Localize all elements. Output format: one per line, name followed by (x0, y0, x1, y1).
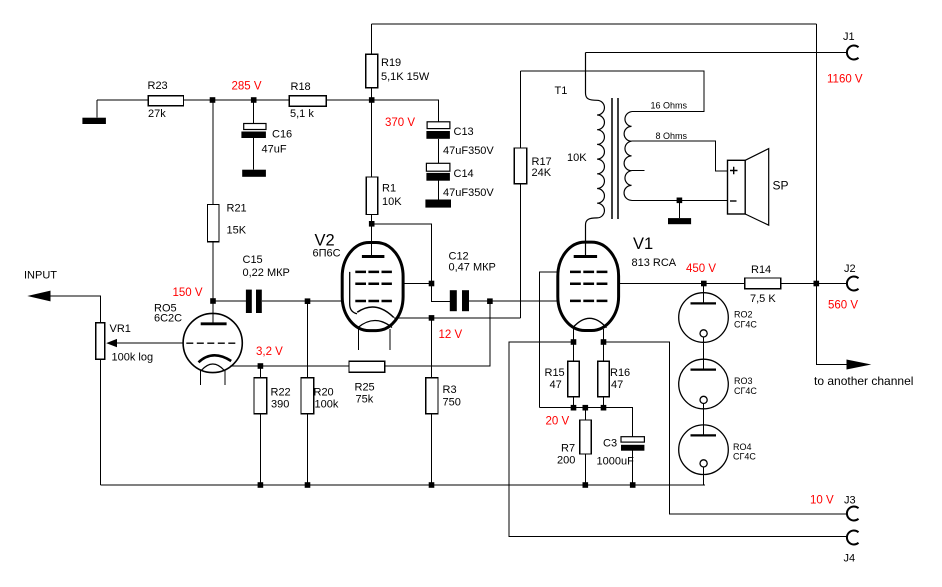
wire cathode node to J4 (509, 342, 847, 537)
svg-text:СГ4С: СГ4С (734, 319, 757, 329)
connector J1 (847, 46, 859, 60)
svg-text:370 V: 370 V (385, 117, 415, 129)
transformer T1 core (612, 98, 618, 219)
svg-text:1160 V: 1160 V (827, 74, 863, 86)
resistor R18 (289, 96, 326, 107)
svg-text:R18: R18 (291, 81, 311, 93)
potentiometer VR1 wiper arrow (106, 339, 117, 347)
wire J1 feed (586, 52, 848, 54)
tube V1 envelope (558, 242, 619, 330)
wire R19 branch (371, 24, 373, 100)
svg-text:C15: C15 (243, 254, 263, 266)
tube RO5 plate bar (201, 322, 227, 325)
node V1 cathode left (571, 339, 577, 345)
node 150V (210, 298, 216, 304)
resistor R16 (598, 361, 610, 397)
wire V2 cathode to 12V node (394, 317, 432, 319)
svg-text:27k: 27k (148, 108, 166, 120)
wire V2 heater stubs (359, 329, 391, 350)
svg-text:J3: J3 (844, 495, 856, 507)
wire 8ohm tap to speaker plus (632, 141, 728, 171)
wire top rail (372, 23, 817, 25)
tube RO3 plate bar (691, 369, 717, 371)
tube RO5 bottom dome (201, 364, 224, 371)
svg-text:6C2C: 6C2C (154, 313, 182, 325)
wire C3 to rail (632, 451, 634, 485)
node rail R20 (305, 482, 311, 488)
wire R15 branch (573, 342, 575, 408)
svg-text:5,1K 15W: 5,1K 15W (381, 71, 430, 83)
svg-text:10 V: 10 V (810, 495, 834, 507)
svg-text:24K: 24K (532, 167, 552, 179)
wire V1 grid1 left drop (539, 272, 557, 408)
svg-text:3,2 V: 3,2 V (256, 346, 283, 358)
wire 12V node to R17 bottom (432, 317, 521, 319)
svg-text:47uF: 47uF (262, 144, 287, 156)
wire C12 to V1 grid (469, 300, 558, 302)
svg-text:RO2: RO2 (734, 310, 753, 320)
tube V1 grid dashes (570, 272, 607, 301)
node R7 top 20V (583, 405, 589, 411)
svg-text:J1: J1 (843, 31, 855, 43)
capacitor C14 (426, 163, 450, 180)
svg-text:RO4: RO4 (733, 442, 752, 452)
node V2 plate (369, 221, 375, 227)
svg-text:C13: C13 (454, 126, 474, 138)
svg-text:47: 47 (611, 379, 623, 391)
svg-text:0,47 МКР: 0,47 МКР (449, 262, 496, 274)
wire RO5 plate lead (212, 301, 214, 324)
wire 20V rail to C3 (539, 408, 632, 437)
resistor R1 (366, 177, 377, 215)
svg-text:200: 200 (557, 455, 575, 467)
svg-text:8 Ohms: 8 Ohms (656, 131, 688, 141)
svg-text:6П6С: 6П6С (313, 248, 341, 260)
to another channel arrow (847, 360, 872, 370)
wire right HT drop to J2 node (815, 24, 817, 284)
svg-text:R19: R19 (381, 57, 401, 69)
node 3.2V (258, 363, 264, 369)
svg-text:R22: R22 (271, 387, 291, 399)
potentiometer VR1 body (96, 323, 105, 360)
capacitor C3 (621, 437, 644, 451)
wire plate node to C12 (372, 224, 432, 284)
svg-text:RO3: RO3 (734, 376, 753, 386)
svg-text:1000uF: 1000uF (597, 456, 635, 468)
ground bar top-left (82, 118, 106, 124)
tube V2 envelope (342, 243, 403, 331)
svg-text:C14: C14 (454, 168, 474, 180)
input arrow (27, 291, 50, 302)
wire input to VR1 (48, 296, 100, 485)
svg-text:20 V: 20 V (546, 416, 570, 428)
wire regulator chain RO2 RO3 RO4 (703, 284, 705, 486)
tube RO4 plate bar (691, 434, 717, 436)
transformer T1 primary winding (586, 53, 605, 257)
node 450V RO2 tap (701, 281, 707, 287)
svg-text:5,1 k: 5,1 k (290, 108, 314, 120)
tube RO5 cathode arc (199, 355, 232, 362)
wire R16 branch (603, 342, 605, 408)
svg-text:VR1: VR1 (110, 323, 131, 335)
wire main 285V row (97, 100, 438, 122)
node R15 bottom (571, 405, 577, 411)
svg-text:СГ4С: СГ4С (734, 386, 757, 396)
svg-text:100k log: 100k log (112, 352, 154, 364)
tube RO3 envelope (679, 359, 729, 409)
speaker minus (730, 200, 737, 202)
wire RO5 heater stubs (201, 370, 226, 385)
node V1 grid join (487, 298, 493, 304)
wire screen node down to C12 row (432, 284, 450, 302)
svg-text:R25: R25 (355, 382, 375, 394)
speaker cone (745, 149, 769, 226)
resistor R20 (301, 378, 314, 414)
svg-text:R23: R23 (148, 80, 168, 92)
wire R17 riser (520, 71, 522, 318)
resistor R25 (349, 361, 385, 372)
speaker plus (730, 167, 738, 174)
svg-text:450 V: 450 V (686, 263, 716, 275)
svg-text:813 RCA: 813 RCA (632, 257, 677, 269)
wire secondary bottom to speaker minus (632, 199, 728, 201)
tube V2 cathode arc (357, 307, 394, 318)
resistor R3 (426, 378, 438, 414)
svg-text:C16: C16 (272, 129, 292, 141)
capacitor C12 (450, 290, 469, 311)
tube V2 grid dashes (355, 272, 392, 301)
svg-text:285 V: 285 V (232, 81, 262, 93)
svg-text:J4: J4 (844, 553, 856, 565)
node 12V (429, 315, 435, 321)
node C15 R20 junction (305, 298, 311, 304)
wire to another channel drop (816, 284, 850, 365)
resistor R22 (254, 378, 267, 414)
wire R7 branch (584, 408, 586, 485)
tube RO4 cathode circle (700, 460, 707, 467)
svg-text:СГ4С: СГ4С (733, 452, 756, 462)
tube V2 grid hook (350, 272, 357, 314)
node rail C3 (630, 482, 636, 488)
connector J2 (847, 277, 859, 291)
wire R3 branch (431, 318, 433, 485)
svg-text:75k: 75k (356, 394, 374, 406)
svg-text:R14: R14 (751, 264, 771, 276)
connector J3 (847, 507, 859, 521)
resistor R19 (366, 54, 378, 87)
svg-text:C3: C3 (603, 438, 617, 450)
tube RO5 grid dashes (186, 342, 235, 344)
node V1 cathode right (601, 339, 607, 345)
node C16 tap 285V (251, 97, 257, 103)
node speaker ground (677, 198, 683, 204)
wire grid feedback riser to V1 grid node (385, 301, 490, 366)
ground lead top-left (96, 100, 98, 118)
wire RO5 cathode exit (230, 365, 260, 367)
wire R25 row left (230, 365, 349, 367)
svg-text:750: 750 (443, 397, 461, 409)
wire bottom common rail (100, 484, 705, 486)
wire C13 C14 chain (437, 139, 439, 200)
resistor R17 (514, 148, 527, 184)
wire 16ohm link to R17 (521, 71, 705, 112)
wire R1 to V2 plate (371, 100, 373, 256)
wire V1 screen to J2 (619, 283, 847, 285)
resistor R14 (745, 278, 781, 289)
tube RO2 envelope (679, 293, 729, 343)
capacitor C15 (246, 290, 262, 313)
wire V2 screen exit (403, 283, 431, 285)
svg-text:150 V: 150 V (173, 287, 203, 299)
svg-text:560 V: 560 V (828, 300, 858, 312)
node R16 bottom (601, 405, 607, 411)
svg-text:10K: 10K (567, 152, 587, 164)
node rail R7 (583, 482, 589, 488)
ground bar under C16 (242, 170, 266, 177)
svg-text:J2: J2 (844, 263, 856, 275)
wire VR1 wiper to RO5 grid (117, 342, 183, 344)
wire C16 branch (253, 100, 255, 170)
resistor R21 (208, 205, 220, 242)
svg-text:390: 390 (271, 399, 289, 411)
node rail R3 (429, 482, 435, 488)
node J2 560V (814, 281, 820, 287)
svg-text:R3: R3 (443, 384, 457, 396)
svg-text:100k: 100k (315, 399, 339, 411)
node R19 R18 junction (369, 97, 375, 103)
wire speaker ground stub (678, 200, 680, 218)
resistor R7 (580, 420, 592, 454)
ground bar under transformer secondary (668, 218, 691, 224)
node R21 tap (210, 97, 216, 103)
svg-text:SP: SP (773, 179, 789, 193)
resistor R15 (568, 361, 580, 397)
svg-text:R7: R7 (561, 443, 575, 455)
ground bar under C14 (425, 200, 451, 208)
svg-text:R15: R15 (545, 367, 565, 379)
speaker SP box (728, 160, 746, 214)
wire R21 branch (212, 100, 214, 301)
wire R20 branch (307, 301, 309, 485)
tube RO2 cathode circle (700, 330, 707, 337)
tube RO2 plate bar (691, 302, 717, 304)
capacitor C16 (241, 124, 266, 139)
svg-text:INPUT: INPUT (24, 270, 57, 282)
wire cathode node to J3 (604, 342, 848, 514)
capacitor C13 (426, 122, 450, 139)
svg-text:R20: R20 (314, 387, 334, 399)
svg-text:R21: R21 (227, 203, 247, 215)
svg-text:12 V: 12 V (439, 329, 463, 341)
node rail R22 (258, 482, 264, 488)
svg-text:T1: T1 (555, 85, 568, 97)
svg-text:7,5 K: 7,5 K (750, 293, 776, 305)
wire secondary mid stub (632, 170, 645, 172)
tube V2 bottom dome (358, 321, 392, 328)
wire R22 branch (259, 366, 261, 485)
wire 150V node to C15 (213, 300, 246, 302)
connector J4 (847, 531, 859, 545)
transformer T1 secondary winding (624, 112, 631, 201)
tube RO5 envelope (183, 313, 242, 372)
node V2 screen join (429, 281, 435, 287)
tube V1 cathode dome (573, 318, 607, 327)
wire C15 to V2 grid (262, 300, 343, 302)
svg-text:47uF350V: 47uF350V (443, 145, 494, 157)
tube V1 plate bar (574, 255, 597, 258)
svg-text:V1: V1 (633, 235, 653, 253)
svg-text:47: 47 (550, 379, 562, 391)
svg-text:to another channel: to another channel (814, 374, 913, 388)
svg-text:0,22 МКР: 0,22 МКР (243, 267, 290, 279)
svg-text:10K: 10K (382, 196, 402, 208)
svg-text:R16: R16 (610, 367, 630, 379)
tube RO3 cathode circle (700, 396, 707, 403)
tube V2 plate bar (362, 255, 385, 258)
resistor R23 (148, 96, 183, 106)
wire V1 cathode leads (574, 329, 604, 342)
svg-text:47uF350V: 47uF350V (443, 187, 494, 199)
svg-text:16 Ohms: 16 Ohms (651, 101, 688, 111)
tube RO4 envelope (679, 425, 729, 475)
svg-text:15K: 15K (227, 225, 247, 237)
svg-text:R1: R1 (382, 183, 396, 195)
